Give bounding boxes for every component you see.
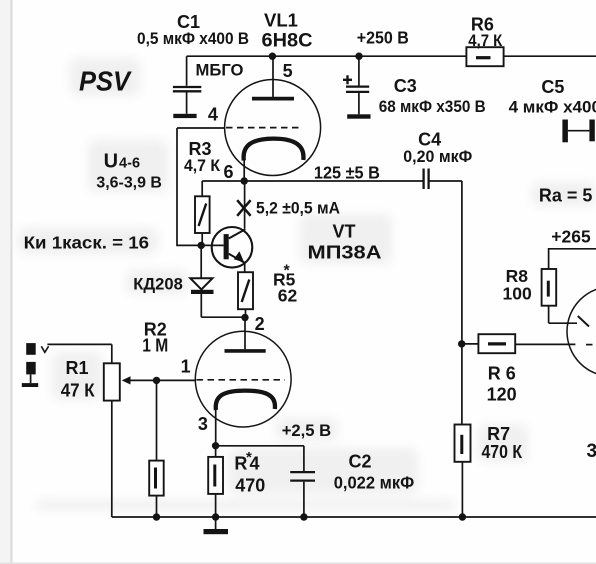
- svg-text:VL1: VL1: [264, 10, 298, 31]
- svg-text:1 М: 1 М: [142, 336, 168, 356]
- svg-text:470 К: 470 К: [482, 442, 523, 462]
- node junction rail R7: [459, 513, 466, 520]
- capacitor C3 (electrolytic): [343, 56, 371, 119]
- svg-text:5: 5: [283, 61, 293, 81]
- svg-text:0,20 мкФ: 0,20 мкФ: [403, 147, 472, 166]
- collector diagonal: [229, 229, 246, 238]
- svg-text:68 мкФ х350 В: 68 мкФ х350 В: [379, 97, 486, 116]
- svg-text:120: 120: [487, 385, 517, 405]
- svg-text:1: 1: [181, 357, 191, 377]
- wire C4 down vertical: [461, 181, 463, 425]
- svg-text:470: 470: [235, 476, 265, 496]
- anode bar: [225, 349, 266, 353]
- grid dashed: [197, 379, 286, 381]
- base bar: [224, 234, 229, 259]
- svg-text:3,6-3,9 В: 3,6-3,9 В: [96, 175, 161, 192]
- transistor VT МП38А: [201, 181, 252, 272]
- anode bar: [252, 97, 294, 101]
- emitter lead: [244, 263, 246, 272]
- resistor R2: [149, 380, 164, 517]
- svg-text:4: 4: [250, 454, 260, 474]
- anode pin 5 lead: [272, 56, 274, 97]
- svg-text:+265 В: +265 В: [551, 227, 596, 247]
- emitter diagonal: [229, 254, 245, 263]
- svg-text:100: 100: [503, 284, 532, 304]
- svg-text:3: 3: [198, 414, 208, 434]
- svg-text:3: 3: [587, 441, 596, 462]
- svg-text:6: 6: [224, 162, 234, 182]
- capacitor C4: [424, 169, 429, 190]
- wire +250V rail: [187, 55, 596, 57]
- svg-text:4,7 К: 4,7 К: [184, 156, 221, 175]
- anode pin 2 lead: [244, 318, 246, 350]
- bottom edge line: [0, 563, 596, 564]
- svg-text:Ки 1каск. = 16: Ки 1каск. = 16: [24, 233, 150, 253]
- wiper arrow: [129, 379, 157, 381]
- svg-text:+250 В: +250 В: [357, 28, 409, 48]
- resistor R7: [455, 425, 471, 518]
- svg-text:C5: C5: [541, 77, 564, 97]
- grid dashed: [226, 127, 303, 129]
- svg-text:47 К: 47 К: [61, 381, 96, 401]
- tube VL2 output (partial): [567, 287, 596, 377]
- resistor R6 (4,7 К top): [466, 47, 503, 66]
- diode VD КД208: [190, 245, 245, 317]
- grid pin 4 wire solid: [177, 127, 225, 129]
- svg-text:2: 2: [255, 314, 265, 334]
- resistor R4: [208, 446, 223, 517]
- cathode lead pin 6: [243, 158, 245, 181]
- tube VL1 upper triode: [177, 56, 321, 181]
- svg-text:PSV: PSV: [79, 66, 132, 97]
- node junction R6-120: [458, 340, 465, 347]
- node junction rail R4: [212, 513, 219, 520]
- svg-text:МБГО: МБГО: [196, 62, 244, 80]
- svg-text:4 мкФ х400 В: 4 мкФ х400 В: [509, 98, 596, 117]
- base wire: [201, 244, 223, 246]
- svg-text:Ra = 5: Ra = 5: [539, 186, 593, 206]
- svg-text:125 ±5 В: 125 ±5 В: [314, 163, 380, 183]
- svg-text:R 6: R 6: [488, 364, 516, 384]
- resistor R5: [238, 272, 253, 317]
- svg-text:КД208: КД208: [133, 275, 183, 294]
- svg-text:4,7 К: 4,7 К: [468, 31, 503, 50]
- svg-text:0,5 мкФ х400 В: 0,5 мкФ х400 В: [137, 29, 249, 48]
- svg-text:5,2 ±0,5 мА: 5,2 ±0,5 мА: [256, 199, 340, 218]
- wire +265V: [549, 249, 596, 269]
- collector wire: [244, 181, 246, 229]
- resistor R3: [195, 181, 210, 245]
- svg-text:+2,5 В: +2,5 В: [282, 421, 332, 440]
- svg-text:R7: R7: [487, 424, 510, 444]
- wire grid-4 left vertical: [177, 128, 201, 245]
- capacitor C1: [173, 56, 201, 118]
- capacitor C2: [290, 446, 315, 517]
- node junction 6: [241, 177, 248, 184]
- left gray strip: [0, 0, 11, 564]
- svg-text:VT: VT: [333, 222, 356, 242]
- output wire node 6 horizontal: [202, 180, 423, 182]
- wire grid lower triode: [157, 379, 196, 381]
- node junction rail C2: [300, 513, 307, 520]
- svg-text:62: 62: [278, 286, 298, 306]
- cathode arc: [216, 391, 275, 410]
- tube VL1 lower triode: [195, 318, 291, 446]
- node junction 2: [241, 314, 248, 321]
- cathode lead pin 3: [215, 407, 217, 446]
- svg-text:0,022 мкФ: 0,022 мкФ: [334, 473, 415, 493]
- node junction C3-rail: [355, 53, 362, 60]
- svg-text:R1: R1: [66, 358, 89, 378]
- anode diagonal: [578, 316, 589, 327]
- input jack: [22, 343, 112, 387]
- ground rail: [112, 516, 596, 518]
- emitter arrowhead: [234, 251, 244, 262]
- svg-text:С3: С3: [394, 76, 417, 96]
- svg-text:4: 4: [208, 105, 218, 125]
- svg-text:C2: C2: [349, 452, 372, 472]
- node junction base: [198, 242, 205, 249]
- node junction cathode 3: [212, 442, 219, 449]
- resistor R8: [542, 269, 577, 323]
- svg-text:6Н8С: 6Н8С: [262, 31, 313, 52]
- potentiometer R1: [104, 344, 157, 517]
- svg-text:МП38А: МП38А: [308, 242, 382, 263]
- node junction rail R2: [153, 513, 160, 520]
- resistor R6 (120): [462, 334, 596, 353]
- cathode arc: [244, 139, 304, 161]
- wire cathode to C2: [216, 445, 304, 447]
- current marker x: [237, 200, 250, 216]
- capacitor C5: [562, 120, 594, 143]
- node junction grid: [153, 377, 160, 384]
- node junction anode-rail: [269, 53, 276, 60]
- ground symbol: [204, 517, 229, 534]
